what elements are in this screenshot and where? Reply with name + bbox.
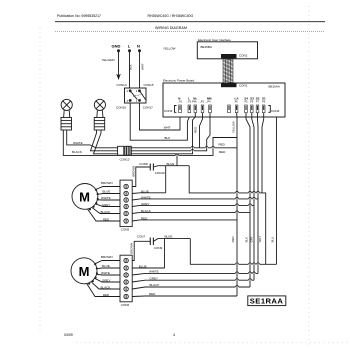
wire LA yellow/red vertical xyxy=(236,113,238,296)
wire white lamp1 to CON13 row A xyxy=(67,130,118,148)
svg-text:RED: RED xyxy=(141,216,148,220)
svg-text:CON10: CON10 xyxy=(155,171,165,175)
motor1 wire white xyxy=(97,199,120,201)
svg-text:BLACK: BLACK xyxy=(101,210,111,214)
svg-text:WHITE: WHITE xyxy=(149,270,159,274)
svg-text:GREY: GREY xyxy=(102,278,111,282)
svg-text:BLACK: BLACK xyxy=(101,286,111,290)
svg-text:P4A: P4A xyxy=(192,100,197,103)
svg-text:BLUE: BLUE xyxy=(103,190,111,194)
svg-text:_P4: _P4 xyxy=(205,100,211,103)
motor2 right grey wire xyxy=(132,280,254,282)
svg-text:WHITE: WHITE xyxy=(73,141,83,145)
svg-text:WHITE: WHITE xyxy=(101,196,111,200)
registration dotted line right xyxy=(308,6,310,346)
motor1 wire grey xyxy=(96,204,121,207)
cap2 node line blue xyxy=(153,239,190,242)
svg-text:Electronic Power Board: Electronic Power Board xyxy=(163,79,195,83)
svg-text:CON15: CON15 xyxy=(144,83,154,87)
svg-text:CON9: CON9 xyxy=(154,246,163,250)
lamp socket 1 xyxy=(61,118,72,131)
svg-text:WHITE: WHITE xyxy=(141,195,151,199)
svg-text:BLACK: BLACK xyxy=(72,150,82,154)
connector CON13 xyxy=(118,146,132,155)
row C right of CON13 from NL pin xyxy=(131,113,195,154)
motor1 right blue wire xyxy=(132,192,166,195)
motor1 right black wire xyxy=(132,212,250,213)
wire from CON17 down to WHT run xyxy=(140,103,181,130)
motor M1 xyxy=(72,184,99,211)
connector CON2 bar xyxy=(221,54,237,58)
terminal bars left group xyxy=(179,105,212,113)
motor2 blue branch up xyxy=(164,239,166,268)
svg-text:_P3: _P3 xyxy=(199,100,205,103)
svg-text:_P1: _P1 xyxy=(177,100,183,103)
svg-text:RED: RED xyxy=(103,293,110,297)
wire cap left plate to motor1 pin1 brown xyxy=(132,167,150,187)
svg-text:03/09: 03/09 xyxy=(64,333,73,337)
svg-text:BROWN: BROWN xyxy=(101,255,113,259)
motor2 wire brown xyxy=(95,261,120,264)
svg-text:YEL/GRN: YEL/GRN xyxy=(102,58,115,62)
svg-text:BROWN: BROWN xyxy=(130,243,134,254)
connector CON1 bar xyxy=(221,83,237,87)
drop from row C to capacitor node xyxy=(176,154,178,166)
svg-text:CON16: CON16 xyxy=(116,106,126,110)
wire hop bumps xyxy=(175,146,259,288)
svg-text:BLUE: BLUE xyxy=(167,162,175,166)
wire S4 vertical xyxy=(246,113,250,287)
lamp 1 xyxy=(61,99,72,117)
switch blade 2 xyxy=(140,91,146,100)
header dotted rule xyxy=(55,31,325,33)
registration dotted line bottom xyxy=(76,342,348,344)
wire black lamp1 row D xyxy=(63,130,237,155)
cap2 left to motor2 pin1 xyxy=(132,241,150,260)
svg-text:RED: RED xyxy=(149,292,156,296)
svg-text:CON14: CON14 xyxy=(117,83,127,87)
motor1 right white wire xyxy=(132,199,258,200)
terminal bars right group xyxy=(228,105,265,113)
svg-text:BLUE: BLUE xyxy=(102,264,110,268)
lamp socket 2 xyxy=(94,118,105,131)
svg-text:_P2: _P2 xyxy=(186,100,192,103)
svg-text:WHT: WHT xyxy=(141,63,145,70)
svg-text:BLU: BLU xyxy=(271,237,275,242)
svg-text:M: M xyxy=(79,264,90,279)
wire P3 pin down to row A xyxy=(200,113,203,148)
svg-text:BE15BA: BE15BA xyxy=(201,45,212,49)
svg-text:CON5: CON5 xyxy=(121,227,130,231)
SE1RAA box xyxy=(248,296,286,306)
motor1 wire blue xyxy=(98,193,120,196)
motor2 wire black xyxy=(92,282,120,289)
svg-text:N: N xyxy=(137,44,140,49)
lamp 2 xyxy=(94,99,105,117)
ground arrow xyxy=(116,74,121,80)
switch blade 1 xyxy=(130,91,137,100)
motor2 wire red xyxy=(87,283,120,296)
wire S3 vertical xyxy=(252,113,254,281)
svg-text:BLK: BLK xyxy=(165,136,171,140)
motor2 right white wire xyxy=(132,273,258,275)
connector CON4 bracket xyxy=(268,106,270,113)
svg-text:WHTE: WHTE xyxy=(101,271,110,275)
svg-text:BLUE: BLUE xyxy=(165,235,173,239)
svg-text:CON8: CON8 xyxy=(139,162,148,166)
svg-text:RED: RED xyxy=(194,126,198,133)
svg-text:YELLOW: YELLOW xyxy=(232,121,236,133)
svg-text:GRY: GRY xyxy=(250,236,254,242)
pin refs P1 P2 P4A P3 P4 xyxy=(177,100,211,103)
svg-text:GND: GND xyxy=(112,44,121,49)
interlock switch box xyxy=(125,88,147,103)
motor2 wire white xyxy=(97,273,121,276)
svg-text:WHT: WHT xyxy=(258,236,262,243)
pin refs P6 P5 P9 P7 P8 xyxy=(235,101,266,104)
motor2 right red wire xyxy=(132,295,237,298)
connector CON3 bracket xyxy=(175,106,177,113)
svg-text:GREY: GREY xyxy=(102,203,111,207)
motor1 wire black xyxy=(92,208,120,214)
svg-text:CON1: CON1 xyxy=(239,84,248,88)
switch linkage dashed xyxy=(133,94,144,96)
svg-text:GREY: GREY xyxy=(141,202,150,206)
motor1 right grey wire xyxy=(132,205,254,206)
svg-text:BE16AA: BE16AA xyxy=(269,85,280,89)
svg-text:RED: RED xyxy=(219,143,226,147)
row A right of CON13 to yellow wire xyxy=(131,147,237,149)
motor1 right red wire xyxy=(132,220,237,221)
connector strip CON5 xyxy=(120,180,132,227)
wire N down xyxy=(139,51,141,88)
svg-text:BLK: BLK xyxy=(128,64,132,70)
Electronic Power Board box xyxy=(163,83,285,117)
motor2 right black wire xyxy=(132,287,250,289)
branch to motor1 blue xyxy=(165,166,167,193)
connector strip CON6 xyxy=(120,255,132,302)
svg-text:Publication No: 5995535217: Publication No: 5995535217 xyxy=(57,14,101,18)
svg-text:CON3: CON3 xyxy=(164,109,173,113)
Electronic User Interface box xyxy=(197,42,257,59)
svg-text:RED: RED xyxy=(219,150,226,154)
wire lamp2 pin to row B xyxy=(91,130,118,151)
motor M2 xyxy=(71,258,98,285)
svg-text:RH36WC40G / RH36WC40G: RH36WC40G / RH36WC40G xyxy=(148,14,194,18)
wire S1 vertical xyxy=(262,113,264,193)
blue loop down right xyxy=(190,239,276,265)
wire S2 vertical xyxy=(257,113,260,274)
svg-text:CON6: CON6 xyxy=(121,303,130,307)
motor2 right blue wire xyxy=(132,267,164,269)
row B right of CON13 from NM pin xyxy=(131,113,210,151)
header rule xyxy=(55,21,325,23)
registration dotted line left xyxy=(39,28,41,332)
motor1 wire brown xyxy=(96,187,120,190)
motor2 wire grey xyxy=(95,278,120,282)
svg-text:BLK: BLK xyxy=(244,237,248,242)
ground wire xyxy=(118,51,120,76)
wire from CON16 down to BLK run xyxy=(130,103,189,140)
wire L down xyxy=(129,51,131,88)
svg-text:BLUE: BLUE xyxy=(139,265,147,269)
wire CON4 vertical xyxy=(276,117,278,264)
con8 run to S1 xyxy=(189,166,266,265)
svg-text:CON7: CON7 xyxy=(137,235,146,239)
svg-text:BLUE: BLUE xyxy=(141,189,149,193)
ribbon cable xyxy=(223,58,233,84)
svg-text:RED: RED xyxy=(231,236,235,242)
svg-text:BLACK: BLACK xyxy=(150,283,160,287)
svg-text:M: M xyxy=(79,190,90,205)
capacitor CON8 node line xyxy=(153,166,189,167)
svg-text:GREY: GREY xyxy=(150,276,159,280)
svg-text:BROWN: BROWN xyxy=(101,181,113,185)
svg-text:RED: RED xyxy=(103,218,110,222)
svg-text:CON17: CON17 xyxy=(143,106,153,110)
svg-text:CON2: CON2 xyxy=(239,54,248,58)
motor2 wire blue xyxy=(97,267,120,270)
svg-text:WIRING DIAGRAM: WIRING DIAGRAM xyxy=(155,26,187,30)
wire lamp2 pin to row C xyxy=(94,130,118,154)
switch contact dots xyxy=(129,89,132,92)
svg-text:BLACK: BLACK xyxy=(141,209,151,213)
motor1 wire red xyxy=(88,209,121,221)
svg-text:YELLOW: YELLOW xyxy=(163,47,176,51)
capacitor CON8 xyxy=(150,164,153,171)
svg-text:WHT: WHT xyxy=(164,126,171,130)
svg-text:CON4: CON4 xyxy=(271,109,280,113)
svg-text:CON13: CON13 xyxy=(120,157,130,161)
svg-text:BROWN: BROWN xyxy=(131,166,135,177)
svg-text:4: 4 xyxy=(173,333,175,337)
svg-text:SE1RAA: SE1RAA xyxy=(250,297,284,306)
